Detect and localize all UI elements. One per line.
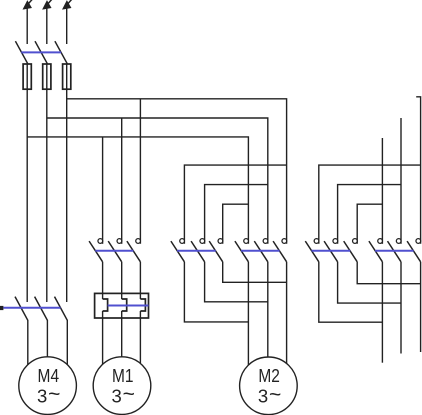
wire feed to contact K5 pole 1 (from off-sheet) <box>381 138 383 244</box>
switch Q1 pole 2 blade <box>35 41 47 64</box>
wire K1 pole 2 to overload <box>121 262 123 299</box>
wire tap L2 to contact K1 pole 2 <box>121 118 123 244</box>
motor M4 circle <box>19 357 77 415</box>
bus L3 horizontal with drop to contact K2 pole 3 <box>67 99 287 244</box>
contactor K2 (M2 rev) pole 1 contact <box>235 239 249 262</box>
overload F4 heater 2 <box>122 299 127 311</box>
wire contactor K3 pole 1 output to node <box>184 262 248 322</box>
svg-text:3: 3 <box>37 385 47 406</box>
wire feed to contact K3 pole 3 (crossover) <box>223 204 249 244</box>
wire contactor K4 pole 2 output to node <box>338 262 401 303</box>
svg-text:~: ~ <box>123 383 135 406</box>
supply arrow L1 <box>24 0 34 44</box>
switch Q2 pole 3 blade <box>55 297 68 321</box>
contactor K3 (M2 fwd) pole 1 contact <box>171 239 185 262</box>
contactor K5 pole 2 contact <box>388 239 402 262</box>
wire overload 2 to motor M1 <box>121 311 123 368</box>
overload F4 heater 3 <box>140 299 145 311</box>
wire contactor K2 pole 2 to motor M2 <box>267 262 269 368</box>
wire contactor K5 pole 3 output <box>420 262 422 352</box>
contactor K3 (M2 fwd) pole 2 contact <box>191 239 205 262</box>
contactor K4 pole 1 contact <box>305 239 319 262</box>
wire feed to contact K3 pole 2 (crossover) <box>205 185 268 244</box>
switch Q1 pole 3 blade <box>55 41 67 64</box>
wire feed to contact K4 pole 2 (crossover) <box>338 185 401 244</box>
wire feed to contact K5 pole 2 (from off-sheet) <box>400 118 402 244</box>
wire L1 vertical <box>26 64 28 302</box>
contactor K5 pole 1 contact <box>369 239 383 262</box>
wire switch Q2 pole 1 to motor M4 <box>27 320 29 368</box>
contactor K1 pole 1 contact <box>89 239 103 262</box>
contactor K2 (M2 rev) linkage <box>241 250 280 252</box>
switch Q1 pole 1 blade <box>15 41 27 64</box>
svg-text:3: 3 <box>111 385 121 406</box>
wire feed to contact K5 pole 3 (from off-sheet) <box>416 97 420 244</box>
wire switch Q2 pole 2 to motor M4 <box>46 320 48 368</box>
wire contactor K3 pole 3 output to node <box>223 262 287 283</box>
svg-text:~: ~ <box>269 383 281 406</box>
switch Q2 pole 2 blade <box>35 297 48 321</box>
wire feed to contact K4 pole 3 (crossover) <box>357 204 382 244</box>
wire tap L3 to contact K1 pole 3 <box>139 99 141 244</box>
contactor K3 (M2 fwd) pole 3 contact <box>209 239 223 262</box>
switch Q2 pole 1 blade <box>15 297 28 321</box>
wire contactor K2 pole 3 to motor M2 <box>286 262 288 368</box>
wire contactor K4 pole 1 output to node <box>319 262 383 322</box>
switch Q2 actuator <box>0 306 3 310</box>
overload relay F4 box <box>95 293 149 318</box>
contactor K4 pole 2 contact <box>324 239 338 262</box>
wire contactor K2 pole 1 to motor M2 <box>247 262 249 368</box>
wire K1 pole 1 to overload <box>102 262 104 299</box>
overload relay F4 trip linkage <box>108 305 149 307</box>
wire L2 vertical <box>46 64 48 302</box>
wire feed to contact K3 pole 1 (crossover) <box>184 165 286 244</box>
supply arrow L3 <box>63 0 73 44</box>
fuse F2 <box>43 64 51 89</box>
fuse F1 <box>23 64 31 89</box>
wire K1 pole 3 to overload <box>139 262 141 299</box>
contactor K2 (M2 rev) pole 2 contact <box>254 239 268 262</box>
contactor K5 pole 3 contact <box>407 239 421 262</box>
fuse F3 <box>63 64 71 89</box>
contactor K1 pole 3 contact <box>127 239 141 262</box>
contactor K4 pole 3 contact <box>344 239 358 262</box>
motor M2 circle <box>240 357 298 415</box>
wire contactor K5 pole 2 output <box>400 262 402 354</box>
svg-text:~: ~ <box>48 383 60 406</box>
bus L1 horizontal with drop to contact K2 pole 1 <box>27 137 248 244</box>
supply arrow L2 <box>43 0 53 44</box>
motor M1 circle <box>93 357 151 415</box>
wire switch Q2 pole 3 to motor M4 <box>66 320 68 368</box>
bus L2 horizontal with drop to contact K2 pole 2 <box>47 118 268 244</box>
wire feed to contact K4 pole 1 (crossover) <box>319 165 421 244</box>
wire contactor K3 pole 2 output to node <box>205 262 268 302</box>
contactor K3 (M2 fwd) linkage <box>177 250 216 252</box>
contactor K4 linkage <box>312 250 351 252</box>
svg-text:3: 3 <box>258 386 268 407</box>
contactor K1 pole 2 contact <box>108 239 122 262</box>
wire overload 3 to motor M1 <box>139 311 141 368</box>
wire contactor K5 pole 1 output <box>381 262 383 363</box>
wire contactor K4 pole 3 output to node <box>357 262 420 284</box>
contactor K2 (M2 rev) pole 3 contact <box>273 239 287 262</box>
contactor K5 linkage <box>375 250 414 252</box>
wire L3 vertical <box>66 64 68 302</box>
contactor K1 linkage <box>95 250 133 252</box>
wire overload 1 to motor M1 <box>102 311 104 368</box>
switch Q2 linkage <box>3 307 60 309</box>
wire tap L1 to contact K1 pole 1 <box>102 137 104 244</box>
switch Q1 linkage <box>21 51 61 53</box>
overload F4 heater 1 <box>103 299 108 311</box>
